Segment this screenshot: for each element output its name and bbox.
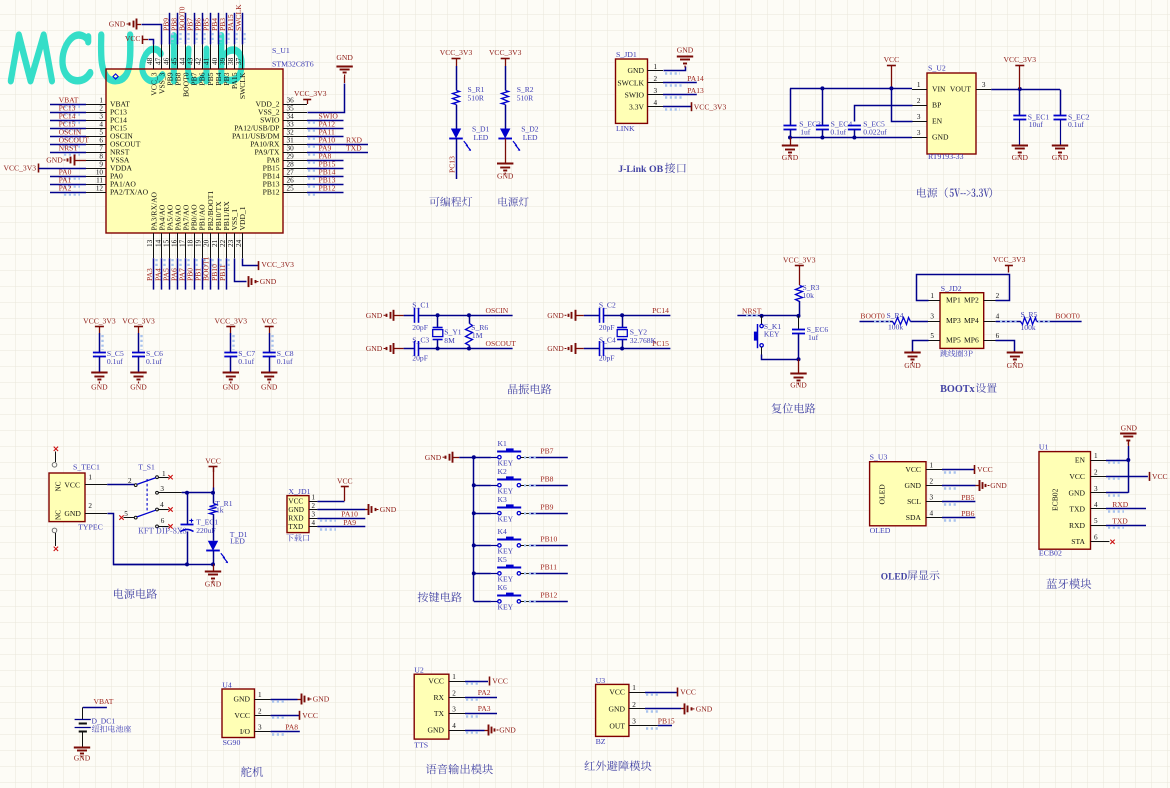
module U3 BZ	[596, 684, 629, 736]
svg-text:20pF: 20pF	[599, 354, 615, 363]
net label PB1 + wire	[202, 258, 204, 289]
svg-text:PA14: PA14	[687, 74, 704, 83]
svg-text:PC14: PC14	[652, 306, 669, 315]
svg-text:S_C2: S_C2	[599, 300, 616, 309]
ground below T_D1	[213, 564, 215, 571]
title 电源灯	[499, 197, 529, 207]
switch T_S1 KFT DIP-8X8	[119, 463, 186, 534]
svg-text:2: 2	[996, 292, 1000, 300]
net label PB11 + wire	[521, 573, 531, 575]
svg-text:SWCLK: SWCLK	[617, 78, 644, 87]
svg-text:25: 25	[287, 185, 295, 193]
svg-text:3: 3	[930, 313, 934, 321]
power VCC at U4 pin2	[271, 715, 300, 717]
svg-text:3: 3	[654, 87, 658, 95]
net label PB15 + wire	[307, 168, 344, 170]
ground at U1 pin 47	[136, 19, 138, 30]
wire BP to EC5	[855, 106, 913, 122]
svg-text:PA2/TX/AO: PA2/TX/AO	[110, 188, 149, 197]
resistor S_R4 100k	[893, 318, 911, 325]
svg-text:1uf: 1uf	[808, 333, 819, 342]
svg-text:RXD: RXD	[1112, 500, 1129, 509]
capacitor S_C5 0.1uf	[93, 352, 106, 354]
svg-text:2: 2	[1094, 468, 1098, 476]
U1 bottom pins 13-24	[146, 191, 247, 259]
svg-text:32: 32	[287, 129, 295, 137]
net label PA5 + wire	[169, 258, 171, 289]
svg-text:LED: LED	[230, 537, 245, 546]
ground at S_C4	[575, 343, 577, 354]
net label PA6 + wire	[177, 258, 179, 289]
svg-text:X_JD1: X_JD1	[288, 487, 310, 496]
svg-text:NRST: NRST	[742, 307, 762, 316]
svg-text:1: 1	[312, 493, 316, 501]
svg-text:29: 29	[287, 153, 295, 161]
display S_U3 OLED	[870, 462, 926, 526]
MCU U1 STM32C8T6 body	[106, 69, 283, 233]
svg-text:24: 24	[235, 239, 243, 247]
svg-text:GND: GND	[223, 383, 240, 392]
svg-text:GND: GND	[677, 46, 694, 55]
svg-text:PB11: PB11	[540, 563, 557, 572]
svg-text:41: 41	[203, 57, 211, 65]
svg-text:MP6: MP6	[964, 335, 979, 344]
svg-text:4: 4	[996, 313, 1000, 321]
svg-text:7: 7	[99, 145, 103, 153]
svg-text:GND: GND	[990, 481, 1007, 490]
svg-text:20pF: 20pF	[412, 323, 428, 332]
svg-text:31: 31	[287, 137, 295, 145]
svg-text:KEY: KEY	[764, 329, 780, 338]
svg-text:TXD: TXD	[288, 523, 303, 531]
STA pin open	[1091, 541, 1110, 543]
svg-text:BP: BP	[932, 101, 941, 110]
net label PB0 + wire	[194, 258, 196, 289]
svg-text:1: 1	[930, 292, 934, 300]
svg-text:2: 2	[312, 502, 316, 510]
net label NRST + wire	[50, 152, 86, 154]
svg-text:1k: 1k	[216, 506, 224, 515]
button K5 KEY	[472, 571, 476, 575]
net label NRST + wire	[737, 315, 799, 317]
net label OSCOUT + wire	[50, 144, 86, 146]
svg-text:MP3: MP3	[946, 316, 961, 325]
net label PB9 + wire	[169, 13, 171, 45]
net label PA15 + wire	[234, 13, 236, 45]
svg-text:2: 2	[88, 502, 92, 510]
svg-text:RT9193-33: RT9193-33	[928, 152, 964, 161]
wire GND bus	[790, 137, 912, 139]
net label PC13 + wire	[50, 112, 86, 114]
svg-text:GND: GND	[366, 311, 383, 320]
net label PA10 + wire	[307, 144, 368, 146]
svg-text:GND: GND	[1069, 488, 1086, 497]
svg-text:GND: GND	[428, 726, 445, 735]
svg-text:EN: EN	[1075, 456, 1086, 465]
wire VIN bus	[790, 88, 912, 90]
net label PA13 + wire	[663, 94, 697, 96]
svg-text:GND: GND	[1121, 423, 1138, 432]
svg-text:OUT: OUT	[609, 721, 625, 730]
svg-text:5: 5	[1094, 517, 1098, 525]
svg-text:VCC_3V3: VCC_3V3	[1004, 55, 1037, 64]
resistor T_R1 1k	[213, 493, 215, 504]
svg-text:PA3: PA3	[478, 704, 491, 713]
svg-text:12: 12	[96, 185, 104, 193]
svg-text:KEY: KEY	[498, 515, 514, 524]
svg-text:VCC: VCC	[288, 497, 303, 505]
svg-text:38: 38	[227, 57, 235, 65]
svg-text:I/O: I/O	[240, 727, 251, 736]
net label PA0 + wire	[50, 176, 86, 178]
power VCC at ECB02 pin2	[1106, 476, 1148, 478]
svg-text:2: 2	[128, 477, 132, 485]
svg-text:6: 6	[996, 332, 1000, 340]
svg-text:NRST: NRST	[59, 144, 79, 153]
svg-text:GND: GND	[905, 481, 922, 490]
net label PB12 + wire	[521, 601, 531, 603]
svg-text:9: 9	[99, 161, 103, 169]
capacitor S_EC4 0.1uf	[822, 88, 824, 125]
net label PB5 + wire	[210, 13, 212, 45]
svg-text:MP2: MP2	[964, 296, 979, 305]
title 红外避障模块	[585, 760, 652, 771]
svg-text:VCC: VCC	[680, 688, 696, 697]
svg-text:GND: GND	[425, 453, 442, 462]
svg-text:VCC: VCC	[337, 476, 353, 485]
svg-text:3: 3	[930, 494, 934, 502]
svg-text:27: 27	[287, 169, 295, 177]
svg-text:PA9: PA9	[343, 518, 356, 527]
TEC1 pin2 wire to ground bus	[85, 513, 107, 515]
net label PB10 + wire	[521, 545, 531, 547]
svg-text:S_TEC1: S_TEC1	[73, 462, 100, 471]
svg-text:BOOT0: BOOT0	[1055, 311, 1080, 320]
LED T_D1	[208, 541, 218, 551]
svg-text:TX: TX	[434, 709, 445, 718]
svg-text:GND: GND	[1012, 153, 1029, 162]
svg-text:5: 5	[99, 129, 103, 137]
button K6 KEY	[474, 601, 491, 603]
svg-text:19: 19	[195, 239, 203, 247]
svg-text:GND: GND	[904, 361, 921, 370]
ground below S_C8	[261, 372, 277, 374]
jumper S_JD2 3P	[940, 293, 984, 349]
svg-text:14: 14	[154, 239, 162, 247]
svg-text:45: 45	[170, 57, 178, 65]
svg-text:OLED: OLED	[878, 484, 887, 505]
svg-text:S_U1: S_U1	[272, 46, 290, 55]
capacitor S_EC1 10uf	[1019, 89, 1021, 116]
svg-text:GND: GND	[932, 133, 949, 142]
svg-text:VCC_3V3: VCC_3V3	[489, 48, 522, 57]
svg-text:30: 30	[287, 145, 295, 153]
svg-text:4: 4	[1094, 501, 1098, 509]
title 蓝牙模块	[1047, 578, 1092, 589]
svg-text:VCC: VCC	[64, 480, 80, 489]
wire OSCIN + label	[419, 315, 513, 317]
net label PB13 + wire	[307, 184, 344, 186]
capacitor S_EC5 0.022uf	[848, 125, 861, 127]
svg-text:20pF: 20pF	[599, 323, 615, 332]
svg-text:VCC: VCC	[261, 317, 277, 326]
TEC1 pin1 wire to switch	[85, 484, 107, 486]
svg-text:U3: U3	[596, 676, 606, 685]
ground at U2 pin4	[465, 730, 485, 732]
net label PA11 + wire	[307, 136, 344, 138]
svg-text:40: 40	[211, 57, 219, 65]
svg-text:3: 3	[312, 510, 316, 518]
svg-text:GND: GND	[234, 695, 251, 704]
svg-text:VCC_3V3: VCC_3V3	[294, 89, 327, 98]
svg-text:34: 34	[287, 113, 295, 121]
svg-text:1: 1	[917, 81, 921, 89]
svg-text:220uF: 220uF	[196, 526, 215, 535]
power VCC_3V3 at JD1 pin 4	[663, 106, 691, 108]
svg-text:VDD_1: VDD_1	[238, 206, 247, 230]
svg-text:VCC: VCC	[428, 677, 444, 686]
svg-text:32.768K: 32.768K	[630, 336, 657, 345]
title 按键电路	[418, 592, 462, 602]
svg-text:510R: 510R	[468, 93, 485, 102]
wire OSCOUT + label	[419, 348, 513, 350]
net label PA1 + wire	[50, 184, 86, 186]
svg-text:6: 6	[99, 137, 103, 145]
svg-text:SWCLK: SWCLK	[234, 4, 243, 31]
svg-text:LED: LED	[523, 133, 538, 142]
svg-text:S_C4: S_C4	[599, 335, 616, 344]
svg-text:S_R4: S_R4	[887, 311, 904, 320]
title 可编程灯	[429, 197, 472, 207]
ground below EC3	[790, 138, 792, 146]
capacitor T_EC1 220uF	[187, 493, 189, 525]
svg-text:LINK: LINK	[616, 124, 635, 133]
svg-text:3.3V: 3.3V	[629, 102, 644, 111]
net label PB15 + wire	[645, 725, 658, 727]
wire EN tie	[892, 89, 913, 122]
svg-text:GND: GND	[609, 705, 626, 714]
svg-text:2: 2	[917, 97, 921, 105]
ground at U1 pin 35	[336, 66, 352, 68]
net label PB7 + wire	[194, 13, 196, 45]
svg-text:VCC_3V3: VCC_3V3	[783, 255, 816, 264]
svg-text:26: 26	[287, 177, 295, 185]
button K2 KEY	[472, 483, 476, 487]
svg-text:2: 2	[632, 701, 636, 709]
resistor S_R1 510R	[453, 91, 460, 105]
svg-text:TXD: TXD	[346, 144, 362, 153]
net label PA2 + wire	[465, 697, 497, 699]
TypeC shell pin top	[54, 447, 58, 451]
net label RXD + wire	[1106, 508, 1146, 510]
svg-text:PB12: PB12	[319, 184, 336, 193]
svg-text:21: 21	[211, 239, 219, 247]
module U4 SG90	[222, 689, 255, 738]
svg-text:2: 2	[258, 707, 262, 715]
svg-text:S_C1: S_C1	[412, 300, 429, 309]
svg-text:3: 3	[1094, 485, 1098, 493]
ground at U3 pin2	[942, 485, 976, 487]
regulator S_U2 RT9193-33	[927, 73, 976, 154]
svg-text:GND: GND	[46, 156, 63, 165]
svg-text:1M: 1M	[472, 331, 483, 340]
net label PB4 + wire	[218, 13, 220, 45]
svg-text:5: 5	[124, 510, 128, 518]
svg-text:GND: GND	[782, 153, 799, 162]
ground below S_C6	[130, 372, 146, 374]
svg-text:PB10: PB10	[540, 535, 557, 544]
TypeC shell pin bottom	[52, 528, 57, 533]
svg-text:20: 20	[203, 239, 211, 247]
svg-text:VCC_3V3: VCC_3V3	[261, 260, 294, 269]
capacitor S_C8 0.1uf	[263, 352, 276, 354]
title 晶振电路	[508, 384, 552, 394]
svg-text:1: 1	[162, 470, 166, 478]
title 语音输出模块	[426, 764, 493, 775]
svg-text:23: 23	[227, 239, 235, 247]
svg-text:S_R5: S_R5	[1021, 310, 1038, 319]
svg-text:3: 3	[258, 724, 262, 732]
svg-text:VCC: VCC	[905, 465, 921, 474]
wire key bus vertical	[473, 457, 475, 601]
svg-text:4: 4	[99, 121, 103, 129]
power VCC at JD1 pin1	[318, 501, 345, 503]
svg-text:3: 3	[452, 706, 456, 714]
ground below S_C5	[91, 372, 107, 374]
svg-text:GND: GND	[336, 53, 353, 62]
net label PC14 + wire	[50, 120, 86, 122]
resistor S_R3 10k	[796, 286, 803, 302]
svg-text:20pF: 20pF	[412, 354, 428, 363]
svg-text:J-Link OB: J-Link OB	[618, 164, 663, 175]
svg-text:46: 46	[162, 57, 170, 65]
svg-text:VBAT: VBAT	[94, 697, 114, 706]
svg-text:SDA: SDA	[906, 513, 922, 522]
svg-text:S_U3: S_U3	[870, 453, 888, 462]
net label PA9 + wire	[307, 152, 368, 154]
svg-text:U2: U2	[414, 665, 424, 674]
svg-text:37: 37	[235, 57, 243, 65]
ground at S_C3	[393, 343, 395, 354]
svg-text:GND: GND	[288, 506, 304, 514]
svg-text:2: 2	[930, 478, 934, 486]
svg-text:42: 42	[195, 57, 203, 65]
svg-text:GND: GND	[64, 509, 81, 518]
svg-text:100k: 100k	[888, 322, 903, 331]
svg-text:K6: K6	[498, 583, 507, 592]
svg-text:GND: GND	[261, 383, 278, 392]
svg-text:4: 4	[930, 510, 934, 518]
svg-text:SWIO: SWIO	[625, 90, 645, 99]
net label PB12 + wire	[307, 192, 344, 194]
svg-text:5: 5	[930, 332, 934, 340]
capacitor S_C6 0.1uf	[132, 352, 145, 354]
button K4 KEY	[472, 543, 476, 547]
svg-text:ECB02: ECB02	[1039, 549, 1062, 558]
svg-text:VCC: VCC	[302, 711, 318, 720]
svg-text:S_JD2: S_JD2	[941, 284, 962, 293]
net label PA10 + wire	[317, 518, 365, 520]
net label BOOT0 left + wire	[860, 321, 893, 323]
button K1 KEY	[474, 457, 491, 459]
ground below reset	[798, 359, 800, 373]
net label PB8 + wire	[521, 485, 531, 487]
svg-text:3: 3	[99, 113, 103, 121]
svg-text:16: 16	[170, 239, 178, 247]
svg-text:STA: STA	[1071, 537, 1085, 546]
svg-text:0.1uf: 0.1uf	[1068, 120, 1084, 129]
svg-text:VCC: VCC	[492, 677, 508, 686]
svg-text:RXD: RXD	[1069, 521, 1086, 530]
net label PB8 + wire	[177, 13, 179, 45]
net label VBAT + wire	[50, 104, 86, 106]
svg-text:VCC_3V3: VCC_3V3	[83, 317, 116, 326]
svg-text:GND: GND	[74, 754, 91, 763]
svg-text:PB15: PB15	[658, 716, 675, 725]
net label SWCLK + wire	[242, 13, 244, 45]
ground at U1 pin 23 VSS_1	[235, 259, 247, 282]
svg-text:10: 10	[96, 169, 104, 177]
wire PC15 + label	[604, 348, 671, 350]
ground below EC1	[1012, 145, 1028, 147]
svg-text:VCC_3V3: VCC_3V3	[993, 255, 1026, 264]
ground at S_C2	[575, 310, 577, 321]
svg-text:4: 4	[654, 99, 658, 107]
svg-text:TXD: TXD	[1112, 516, 1128, 525]
ground below EC2	[1052, 145, 1068, 147]
net label PC15 + wire	[50, 128, 86, 130]
svg-text:MP4: MP4	[964, 316, 979, 325]
svg-text:MP5: MP5	[946, 335, 961, 344]
svg-text:ECB02: ECB02	[1051, 488, 1060, 511]
svg-text:T_S1: T_S1	[138, 463, 155, 472]
svg-text:GND: GND	[1052, 153, 1069, 162]
wire VOUT	[991, 89, 1060, 91]
wire PC14 + label	[604, 315, 671, 317]
net label PA3 + wire	[153, 258, 155, 289]
svg-text:48: 48	[146, 57, 154, 65]
capacitor S_EC2 0.1uf	[1060, 90, 1062, 116]
svg-text:1: 1	[930, 462, 934, 470]
resistor S_R5 100k	[996, 321, 1021, 323]
title 电源电路	[114, 589, 157, 599]
svg-text:2: 2	[452, 689, 456, 697]
svg-text:PB7: PB7	[540, 446, 553, 455]
svg-text:10k: 10k	[803, 291, 815, 300]
svg-text:8: 8	[99, 153, 103, 161]
svg-text:GND: GND	[205, 579, 222, 588]
wire EN to gnd net	[1106, 460, 1128, 462]
svg-text:OLED: OLED	[870, 526, 891, 535]
switch S_K1 KEY	[761, 316, 763, 324]
U1 left pins 1-12	[86, 97, 149, 197]
svg-text:1: 1	[452, 673, 456, 681]
connector X_JD1 下载口	[287, 496, 309, 533]
LED S_D2	[500, 129, 510, 139]
capacitor S_C4 20pF	[599, 341, 601, 356]
svg-text:VCC_3V3: VCC_3V3	[215, 317, 248, 326]
svg-text:PA13: PA13	[687, 86, 704, 95]
svg-text:13: 13	[146, 239, 154, 247]
net label PA3 + wire	[465, 713, 497, 715]
svg-text:VCC_3V3: VCC_3V3	[4, 164, 37, 173]
svg-text:3: 3	[982, 81, 986, 89]
svg-text:GND: GND	[91, 383, 108, 392]
net label PB6 + wire	[202, 13, 204, 45]
LED S_D1	[451, 129, 461, 139]
svg-text:K1: K1	[498, 439, 507, 448]
title 舵机	[241, 766, 263, 777]
